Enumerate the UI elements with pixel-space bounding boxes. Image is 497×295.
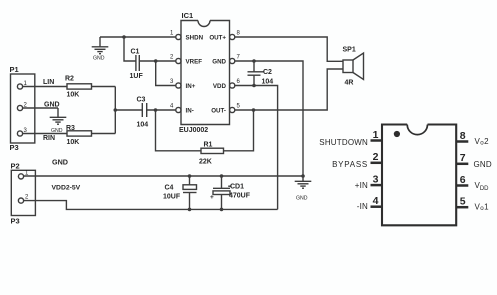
wire RIN from P1 pin3 to R3 bbox=[23, 133, 67, 135]
DIP pin 4 stub bbox=[371, 205, 383, 208]
speaker SP1 bbox=[343, 53, 364, 80]
DIP pin 8 stub bbox=[456, 140, 468, 143]
svg-text:GND: GND bbox=[93, 56, 105, 62]
node junction GND rail / pin7 ground bbox=[301, 174, 305, 178]
svg-text:GND: GND bbox=[52, 158, 68, 167]
svg-text:OUT-: OUT- bbox=[211, 108, 226, 115]
wire GND (pin7) to ground bbox=[235, 61, 303, 176]
svg-text:+IN: +IN bbox=[355, 181, 368, 190]
connector P1 bbox=[11, 74, 35, 143]
svg-text:C2: C2 bbox=[263, 69, 272, 76]
svg-text:104: 104 bbox=[262, 79, 274, 86]
svg-text:+: + bbox=[210, 194, 214, 201]
node junction top GND/C1 bbox=[122, 35, 126, 39]
DIP pin 2 stub bbox=[371, 162, 383, 165]
svg-text:2: 2 bbox=[373, 151, 379, 163]
wire LIN from P1 pin1 to R2 bbox=[23, 86, 67, 88]
svg-text:C1: C1 bbox=[131, 49, 140, 56]
svg-text:6: 6 bbox=[237, 79, 241, 85]
DIP pin 7 stub bbox=[456, 163, 468, 166]
wire junction to IC pin2 bbox=[156, 60, 176, 62]
svg-text:5: 5 bbox=[460, 196, 466, 208]
DIP pin 3 stub bbox=[371, 184, 383, 187]
svg-text:R3: R3 bbox=[66, 125, 75, 132]
wire from IN- node down to R1 bbox=[156, 110, 202, 151]
svg-text:LIN: LIN bbox=[43, 79, 54, 86]
svg-text:1: 1 bbox=[170, 31, 174, 37]
node junction C1/VREF bbox=[154, 59, 158, 63]
capacitor C2 bbox=[248, 61, 261, 86]
svg-text:P3: P3 bbox=[10, 143, 19, 152]
capacitor C1 bbox=[136, 55, 156, 71]
wire R1 right up to OUT- bbox=[224, 110, 254, 151]
op-amp IC1 body bbox=[181, 21, 230, 125]
svg-text:Vo2: Vo2 bbox=[475, 137, 490, 147]
ground symbol bottom right bbox=[295, 176, 312, 188]
wire OUT+ (pin8) to speaker bbox=[235, 37, 343, 61]
wire OUT- (pin5) to speaker bbox=[235, 69, 343, 110]
IC1 pin3 circle bbox=[176, 83, 181, 88]
capacitor C3 bbox=[142, 103, 146, 117]
svg-text:EUJ0002: EUJ0002 bbox=[179, 127, 208, 134]
wire C3 right to IC pin4 bbox=[147, 109, 176, 111]
svg-text:SHDN: SHDN bbox=[186, 35, 204, 42]
svg-text:8: 8 bbox=[237, 31, 241, 37]
svg-text:GND: GND bbox=[44, 102, 60, 109]
svg-text:R2: R2 bbox=[65, 76, 74, 83]
svg-text:10K: 10K bbox=[67, 139, 80, 146]
wire VDD rail from P2 pin2 bbox=[24, 201, 278, 210]
svg-text:7: 7 bbox=[237, 55, 241, 61]
svg-text:GND: GND bbox=[474, 160, 492, 169]
svg-text:P2: P2 bbox=[11, 162, 20, 171]
svg-text:104: 104 bbox=[137, 122, 149, 129]
wire C3 left lead bbox=[115, 109, 142, 111]
capacitor CD1 bbox=[213, 176, 230, 209]
svg-text:1: 1 bbox=[373, 129, 379, 141]
svg-text:CD1: CD1 bbox=[230, 184, 244, 191]
svg-text:R1: R1 bbox=[204, 142, 213, 149]
svg-text:4: 4 bbox=[373, 195, 379, 207]
resistor R2 bbox=[67, 84, 92, 89]
svg-text:VDD2-5V: VDD2-5V bbox=[52, 185, 81, 192]
svg-text:4R: 4R bbox=[345, 80, 354, 87]
IC1 pin6 circle bbox=[230, 83, 235, 88]
node junction pin6/C2 bbox=[252, 84, 256, 88]
svg-text:SHUTDOWN: SHUTDOWN bbox=[319, 138, 368, 147]
svg-text:GND: GND bbox=[296, 196, 308, 202]
svg-text:22K: 22K bbox=[199, 159, 212, 166]
wire R3 to right vertical bbox=[92, 133, 116, 135]
svg-text:2: 2 bbox=[25, 195, 29, 201]
DIP pin 6 stub bbox=[456, 184, 468, 187]
wire down from junction to C1 bbox=[124, 37, 136, 61]
svg-text:OUT+: OUT+ bbox=[209, 35, 226, 42]
wire vertical joining R2 and R3 bbox=[114, 87, 116, 134]
IC1 pin8 circle bbox=[230, 34, 235, 39]
resistor R3 bbox=[67, 131, 92, 136]
wire top GND to IC pin1 bbox=[100, 36, 176, 38]
node junction R2/R3/C3 bbox=[114, 108, 118, 112]
svg-text:BYPASS: BYPASS bbox=[332, 160, 368, 169]
svg-text:IN-: IN- bbox=[186, 108, 194, 115]
node junction C4 top bbox=[188, 174, 192, 178]
wire GND rail from P2 pin1 bbox=[24, 175, 303, 177]
svg-text:VREF: VREF bbox=[186, 59, 203, 66]
ground symbol at P1 pin2 bbox=[50, 108, 67, 124]
IC1 pin1 circle bbox=[176, 34, 181, 39]
ground symbol top (near C1) bbox=[92, 37, 109, 54]
svg-text:SP1: SP1 bbox=[343, 47, 356, 54]
svg-text:Vo1: Vo1 bbox=[475, 203, 490, 213]
svg-text:P1: P1 bbox=[10, 65, 19, 74]
svg-text:P3: P3 bbox=[11, 217, 20, 226]
svg-text:5: 5 bbox=[237, 104, 241, 110]
IC1 pin5 circle bbox=[230, 107, 235, 112]
svg-text:2: 2 bbox=[170, 55, 174, 61]
svg-text:IN+: IN+ bbox=[186, 83, 196, 90]
svg-text:3: 3 bbox=[373, 173, 379, 185]
svg-text:IC1: IC1 bbox=[182, 11, 194, 20]
connector P2 bbox=[11, 170, 35, 215]
svg-text:VDD: VDD bbox=[475, 181, 490, 192]
node junction OUT-/R1 bbox=[252, 108, 256, 112]
svg-text:-IN: -IN bbox=[357, 202, 368, 211]
CD1 label leader tick bbox=[228, 185, 231, 187]
svg-text:1UF: 1UF bbox=[130, 73, 144, 80]
svg-text:RIN: RIN bbox=[43, 135, 55, 142]
svg-text:C3: C3 bbox=[137, 97, 146, 104]
svg-text:10UF: 10UF bbox=[163, 194, 181, 201]
IC1 pin2 circle bbox=[176, 58, 181, 63]
svg-text:C4: C4 bbox=[165, 185, 174, 192]
svg-text:10K: 10K bbox=[67, 92, 80, 99]
DIP package U1 body bbox=[382, 125, 456, 226]
svg-text:3: 3 bbox=[170, 79, 174, 85]
wire GND from P1 pin2 bbox=[23, 107, 58, 109]
wire junction down to IC pin3 bbox=[156, 61, 176, 86]
svg-text:4: 4 bbox=[170, 104, 174, 110]
svg-text:470UF: 470UF bbox=[229, 193, 251, 200]
wire VDD (pin6) down to VDD rail bbox=[235, 86, 278, 210]
wire R2 to right vertical bbox=[92, 86, 116, 88]
resistor R1 bbox=[201, 148, 224, 153]
DIP pin1 marker dot bbox=[394, 131, 400, 137]
node junction CD1 bottom bbox=[220, 208, 224, 212]
node junction C3/IN-/R1 bbox=[154, 108, 158, 112]
node junction pin7/C2 bbox=[252, 59, 256, 63]
svg-text:7: 7 bbox=[460, 152, 466, 164]
node junction C4 bottom bbox=[188, 208, 192, 212]
C2 label leader tick bbox=[261, 71, 265, 73]
svg-text:8: 8 bbox=[460, 130, 466, 142]
svg-text:VDD: VDD bbox=[213, 83, 227, 90]
svg-text:GND: GND bbox=[212, 59, 226, 66]
IC1 pin7 circle bbox=[230, 58, 235, 63]
node junction CD1 top bbox=[220, 174, 224, 178]
DIP pin 5 stub bbox=[456, 206, 468, 209]
IC1 pin4 circle bbox=[176, 107, 181, 112]
svg-text:6: 6 bbox=[460, 174, 466, 186]
capacitor C4 bbox=[183, 176, 197, 209]
DIP pin 1 stub bbox=[371, 139, 383, 142]
